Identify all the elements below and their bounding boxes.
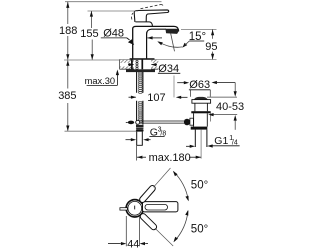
- hose coupling nut: [136, 125, 144, 132]
- pop-up rod: [126, 120, 186, 124]
- svg-text:40-53: 40-53: [216, 101, 244, 113]
- lever handle raised (dashed): [131, 5, 162, 20]
- deck (counter) hatched section: [119, 59, 217, 69]
- label max.30 (deck thickness) with leader: [85, 70, 119, 87]
- top view: lever rotated up 50: [138, 166, 172, 204]
- pop-up waste drain assembly: [184, 97, 211, 159]
- dimension Ø63 (drain flange): [177, 79, 235, 97]
- faucet body side view: [130, 26, 179, 59]
- svg-text:max.180: max.180: [149, 152, 191, 164]
- svg-text:107: 107: [147, 92, 165, 104]
- arc upper 50 with arrows: [173, 171, 208, 202]
- svg-text:max.30: max.30: [85, 76, 116, 86]
- svg-text:44: 44: [127, 239, 139, 250]
- svg-text:50°: 50°: [191, 223, 208, 235]
- threaded shank below deck: [126, 60, 155, 125]
- deck-level extension line: [64, 59, 120, 61]
- svg-text:G1: G1: [214, 135, 228, 147]
- top view: spout stub at left: [120, 208, 128, 210]
- flexible hose: [136, 132, 142, 146]
- svg-text:Ø63: Ø63: [189, 79, 210, 91]
- svg-text:155: 155: [80, 28, 98, 40]
- dimension 44 (top view width): [108, 216, 148, 250]
- svg-text:50°: 50°: [191, 180, 208, 192]
- dimension 95 (spout height): [181, 29, 218, 59]
- svg-text:/4: /4: [232, 139, 238, 146]
- dimension 107 (spout reach): [129, 76, 188, 104]
- dimension 188 (left, total height): [59, 2, 162, 60]
- svg-text:385: 385: [58, 90, 76, 102]
- top view: lever middle position: [143, 202, 178, 212]
- svg-text:95: 95: [205, 41, 217, 53]
- top view: lever rotated down 50: [139, 212, 175, 248]
- arc lower 50 with arrows: [174, 210, 209, 242]
- dimension 40-53 (drain height range): [207, 83, 244, 130]
- dimension 155 (to lever top): [80, 11, 138, 60]
- dimension 385 (deck to hose end): [58, 60, 136, 131]
- 15 degree annotation: [157, 31, 206, 51]
- label G1 1/4 with arrows: [186, 135, 240, 148]
- lever handle (solid, horizontal): [134, 10, 169, 22]
- faucet neck / cartridge cap: [135, 22, 152, 26]
- label Ø48 with leader: [101, 27, 162, 45]
- dimension max.180: [137, 146, 202, 164]
- top view: faucet body circle: [126, 200, 143, 217]
- dimension Ø34 (deck hole): [128, 63, 180, 75]
- label G3/8 with arrows: [126, 127, 167, 142]
- svg-text:188: 188: [59, 25, 77, 37]
- aerator (dark) at spout tip: [165, 29, 178, 34]
